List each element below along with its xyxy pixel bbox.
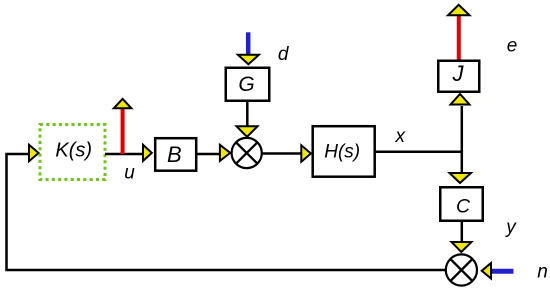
arrowhead into junction 1 xyxy=(220,145,230,161)
svg-text:x: x xyxy=(394,126,406,147)
arrowhead G into junction 1 xyxy=(237,126,258,137)
block G xyxy=(226,68,270,101)
blue input line d xyxy=(246,32,251,55)
wire feedback loop n-to-K xyxy=(7,154,447,270)
block C xyxy=(440,187,483,221)
svg-text:J: J xyxy=(452,61,465,86)
arrowhead into junction 2 xyxy=(452,242,472,252)
wire down to C xyxy=(461,151,464,174)
svg-text:C: C xyxy=(456,195,471,217)
red probe line u xyxy=(121,108,125,155)
junction 2 X cross xyxy=(450,259,472,281)
arrowhead up into J xyxy=(451,94,470,105)
wire up to J xyxy=(461,106,464,152)
svg-text:B: B xyxy=(167,142,182,167)
yellow up arrowhead above u xyxy=(114,99,132,109)
red probe line e xyxy=(457,15,461,60)
wire B to junction 1 xyxy=(197,153,222,156)
wire K to B xyxy=(105,153,144,156)
wire C down to junction 2 xyxy=(461,222,464,243)
multiplier junction 2 circle xyxy=(446,254,477,285)
yellow down arrowhead into G xyxy=(238,55,259,65)
svg-text:e: e xyxy=(507,36,518,57)
svg-text:d: d xyxy=(278,44,290,65)
wire junction 1 to H xyxy=(263,152,302,155)
wire H output x to right junction xyxy=(375,151,462,154)
controller block K(s) dotted xyxy=(40,125,105,180)
svg-text:n: n xyxy=(537,262,548,283)
arrowhead into C xyxy=(450,173,472,183)
wire G down to junction 1 xyxy=(246,102,249,129)
arrowhead into H(s) xyxy=(301,145,311,161)
junction 1 X cross xyxy=(236,142,257,163)
plant block H(s) xyxy=(313,126,375,177)
multiplier junction 1 circle xyxy=(232,138,262,168)
svg-text:G: G xyxy=(238,73,254,96)
blue input line n xyxy=(491,269,514,274)
svg-text:K(s): K(s) xyxy=(55,140,92,162)
svg-text:H(s): H(s) xyxy=(324,141,360,162)
svg-text:u: u xyxy=(124,163,135,184)
block B xyxy=(155,138,196,171)
block J xyxy=(438,61,479,92)
yellow up arrowhead above e xyxy=(448,5,470,16)
yellow left arrowhead into junction 2 xyxy=(482,263,491,279)
arrowhead into K(s) xyxy=(29,145,39,161)
arrowhead into B xyxy=(143,145,152,161)
svg-text:y: y xyxy=(504,217,517,238)
